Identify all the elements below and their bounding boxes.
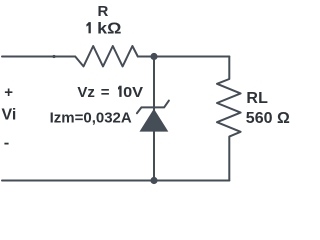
svg-text:560 Ω: 560 Ω xyxy=(246,110,290,127)
svg-text:Vi: Vi xyxy=(2,106,17,123)
svg-text:Vz: Vz xyxy=(77,84,95,101)
svg-text:0V: 0V xyxy=(123,84,143,101)
svg-text:+: + xyxy=(4,84,13,101)
svg-text:RL: RL xyxy=(246,90,268,107)
svg-text:=: = xyxy=(101,84,110,101)
svg-text:R: R xyxy=(98,3,109,20)
svg-text:kΩ: kΩ xyxy=(97,21,121,38)
svg-text:Izm=0,032A: Izm=0,032A xyxy=(50,109,132,126)
